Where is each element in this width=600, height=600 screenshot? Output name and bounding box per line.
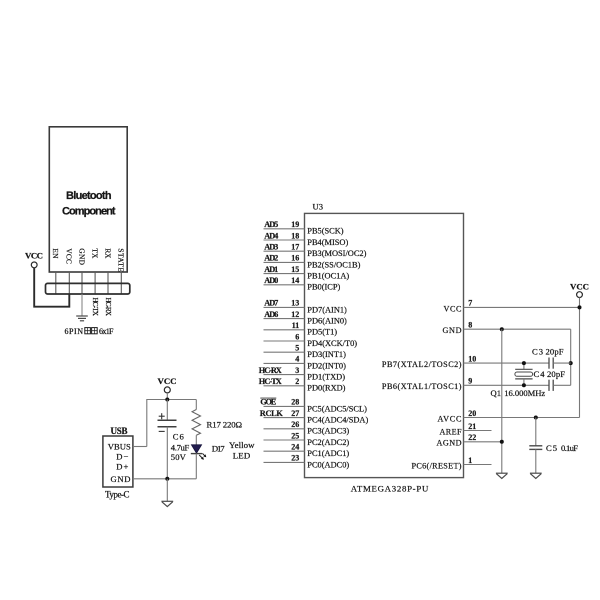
svg-text:C3: C3 (532, 346, 543, 356)
capacitor C3 20pF (532, 346, 571, 368)
wire: Bluetooth pin RX to header (107, 272, 109, 294)
junction: GND/C3 (569, 361, 573, 365)
svg-text:GND: GND (111, 474, 131, 484)
wire: VCC rail down to AVCC (579, 298, 581, 418)
wire: VCC rail top (VBUS branch / R17 branch) (133, 393, 196, 447)
svg-text:PB6(XTAL1/TOSC1): PB6(XTAL1/TOSC1) (382, 382, 462, 391)
svg-text:HC-TX: HC-TX (91, 298, 100, 317)
wire: Bluetooth pin VCC to header (68, 272, 70, 294)
svg-text:AD1: AD1 (264, 265, 278, 274)
svg-text:HC-RX: HC-RX (104, 298, 113, 317)
svg-text:D−: D− (116, 452, 128, 462)
Bluetooth module body (49, 127, 127, 272)
svg-text:EN: EN (51, 248, 60, 259)
svg-text:18: 18 (291, 231, 299, 240)
junction: VCC/C6 (165, 398, 169, 402)
Bluetooth pin label EN (51, 248, 60, 259)
svg-text:HC-TX: HC-TX (259, 377, 282, 386)
pin 18 PB4(MISO) (264, 231, 349, 247)
svg-text:PC0(ADC0): PC0(ADC0) (307, 460, 349, 469)
svg-text:6: 6 (295, 332, 299, 341)
label C6 4.7uF 50V (171, 432, 190, 462)
junction: XTAL2/crystal (522, 361, 526, 365)
junction: GND row / C6 (165, 477, 169, 481)
svg-text:VCC: VCC (570, 281, 589, 291)
svg-text:GND: GND (443, 326, 462, 335)
svg-text:28: 28 (291, 398, 299, 407)
pin 24 PC1(ADC1) (264, 443, 350, 459)
junction: AGND (500, 440, 504, 444)
pin 6 PD4(XCK/T0) (264, 332, 358, 348)
pin 26 PC3(ADC3) (264, 420, 350, 436)
svg-text:7: 7 (468, 299, 472, 308)
pin 10 PB7(XTAL2/TOSC2) (382, 354, 549, 369)
svg-text:23: 23 (291, 454, 299, 463)
junction: XTAL1/crystal (522, 383, 526, 387)
pin 14 PB0(ICP) (264, 276, 341, 292)
svg-text:3: 3 (295, 366, 299, 375)
wire: GND (pin8) to crystal caps (570, 329, 572, 385)
svg-text:Yellow: Yellow (229, 440, 255, 450)
svg-text:4: 4 (295, 355, 299, 364)
wire: Bluetooth pin STATE to header (120, 272, 122, 294)
svg-text:0.1uF: 0.1uF (561, 443, 578, 453)
svg-text:PC6(/RESET): PC6(/RESET) (412, 461, 462, 470)
Bluetooth pin label TX (91, 248, 100, 259)
svg-text:6x1F: 6x1F (99, 327, 114, 336)
svg-text:AD4: AD4 (264, 231, 278, 240)
net label HC-RX (header) (104, 298, 113, 317)
pin 2 PD0(RXD) (259, 377, 346, 393)
label R17 220 (207, 419, 243, 429)
Bluetooth pin label RX (103, 248, 112, 259)
resistor R17 220 ohm (192, 400, 200, 446)
svg-text:14: 14 (291, 276, 299, 285)
svg-text:PD2(INT0): PD2(INT0) (307, 361, 346, 370)
svg-text:AD5: AD5 (264, 220, 278, 229)
svg-text:PD3(INT1): PD3(INT1) (307, 350, 346, 359)
svg-text:PD7(AIN1): PD7(AIN1) (307, 305, 347, 314)
wire: Bluetooth pin TX to header (94, 272, 96, 294)
pin 15 PB1(OC1A) (264, 265, 350, 281)
svg-text:AD0: AD0 (264, 276, 278, 285)
svg-text:VCC: VCC (65, 248, 74, 264)
svg-text:STATE: STATE (117, 248, 126, 272)
svg-text:PC3(ADC3): PC3(ADC3) (307, 427, 349, 436)
svg-text:2: 2 (295, 377, 299, 386)
pin 19 PB5(SCK) (264, 220, 344, 236)
pin 5 PD3(INT1) (264, 344, 347, 360)
VCC terminal (MCU) (570, 281, 589, 297)
pin 21 AREF (440, 422, 492, 437)
pin 17 PB3(MOSI/OC2) (264, 243, 367, 259)
LED D17 (yellow) (191, 445, 207, 479)
svg-text:AD3: AD3 (264, 243, 278, 252)
net label HC-TX (header) (91, 298, 100, 317)
wire: Bluetooth pin EN to header (55, 272, 57, 294)
svg-text:15: 15 (291, 265, 299, 274)
svg-text:PD0(RXD): PD0(RXD) (307, 384, 345, 393)
svg-text:VBUS: VBUS (108, 442, 131, 452)
pin 28 PC5(ADC5/SCL) (260, 398, 367, 414)
USB pin D- (116, 452, 128, 462)
svg-text:PB5(SCK): PB5(SCK) (307, 227, 344, 236)
svg-text:25: 25 (291, 431, 299, 440)
pin 23 PC0(ADC0) (264, 454, 350, 470)
USB pin VBUS (108, 442, 131, 452)
junction: AVCC/C5 branch (534, 416, 538, 420)
label Q1 16.000MHz (491, 388, 546, 398)
svg-text:AD6: AD6 (264, 310, 278, 319)
pin 20 AVCC (438, 409, 580, 424)
pin 4 PD2(INT0) (264, 355, 347, 371)
svg-text:C5: C5 (546, 443, 557, 453)
wire: header GND pin down (81, 294, 83, 316)
svg-text:VCC: VCC (158, 376, 177, 386)
svg-text:Component: Component (62, 206, 116, 218)
svg-text:21: 21 (468, 422, 476, 431)
svg-text:12: 12 (291, 310, 299, 319)
svg-text:RX: RX (103, 248, 112, 259)
svg-text:4.7uF: 4.7uF (171, 442, 190, 452)
svg-text:11: 11 (292, 321, 300, 330)
pin 27 PC4(ADC4/SDA) (260, 409, 369, 425)
svg-text:9: 9 (468, 377, 472, 386)
svg-text:D+: D+ (116, 461, 128, 471)
ground (earth) at Bluetooth GND (76, 316, 88, 321)
capacitor C5 0.1uF (529, 418, 578, 474)
svg-text:22: 22 (468, 433, 476, 442)
svg-text:26: 26 (291, 420, 299, 429)
pin 8 GND (443, 321, 571, 336)
svg-text:PD5(T1): PD5(T1) (307, 328, 337, 337)
svg-text:Type-C: Type-C (105, 489, 130, 499)
svg-text:D17: D17 (212, 443, 226, 453)
VCC terminal (power rail) (158, 376, 177, 393)
capacitor C6 (polarized 4.7uF 50V) (158, 400, 177, 479)
6-pin header J1 (6PIN socket 6x1F) (46, 283, 130, 294)
junction: GND/analog ground branch (500, 327, 504, 331)
svg-text:8: 8 (468, 321, 472, 330)
svg-text:Q1: Q1 (491, 388, 502, 398)
Bluetooth pin label STATE (117, 248, 126, 272)
wire: ground drop (501, 329, 503, 473)
svg-text:USB: USB (111, 426, 128, 436)
svg-text:6PIN: 6PIN (65, 327, 84, 336)
svg-text:PC4(ADC4/SDA): PC4(ADC4/SDA) (307, 416, 368, 425)
svg-text:GND: GND (77, 248, 86, 265)
svg-text:PB3(MOSI/OC2): PB3(MOSI/OC2) (307, 249, 366, 258)
svg-text:AREF: AREF (440, 427, 462, 436)
svg-text:1: 1 (468, 456, 472, 465)
svg-text:R17 220Ω: R17 220Ω (207, 419, 243, 429)
pin 22 AGND (437, 433, 503, 448)
crystal Q1 16.000MHz (515, 363, 533, 385)
label D17 Yellow LED (212, 440, 255, 460)
svg-text:PB1(OC1A): PB1(OC1A) (307, 272, 349, 281)
svg-text:AD7: AD7 (264, 299, 278, 308)
svg-text:PD1(TXD): PD1(TXD) (307, 373, 345, 382)
svg-text:5: 5 (295, 344, 299, 353)
svg-text:AGND: AGND (437, 439, 462, 448)
Bluetooth pin label VCC (65, 248, 74, 264)
USB pin D+ (116, 461, 128, 471)
wire: down to ground (166, 479, 168, 502)
wire: GND row (USB GND - C6 - LED) (133, 478, 196, 480)
op: MCU body U3 ATMEGA328P-PU (305, 202, 464, 494)
pin 16 PB2(SS/OC1B) (264, 254, 361, 270)
svg-text:PB2(SS/OC1B): PB2(SS/OC1B) (307, 260, 360, 269)
wire: VCC terminal to header VCC pin (34, 268, 69, 307)
svg-text:PC5(ADC5/SCL): PC5(ADC5/SCL) (307, 404, 367, 413)
svg-text:GOE: GOE (260, 398, 276, 407)
svg-text:C4: C4 (534, 369, 546, 379)
svg-text:ATMEGA328P-PU: ATMEGA328P-PU (351, 483, 429, 493)
svg-text:16: 16 (291, 254, 299, 263)
svg-text:LED: LED (233, 450, 251, 460)
pin 12 PD6(AIN0) (264, 310, 348, 326)
svg-text:PB0(ICP): PB0(ICP) (307, 283, 340, 292)
pin 7 VCC (444, 299, 580, 314)
wire: Bluetooth pin GND to header (81, 272, 83, 294)
svg-text:17: 17 (291, 243, 299, 252)
svg-text:AVCC: AVCC (438, 414, 463, 423)
svg-text:TX: TX (91, 248, 100, 259)
svg-text:27: 27 (291, 409, 299, 418)
pin 9 PB6(XTAL1/TOSC1) (382, 377, 549, 392)
ground (arrow) C5 (530, 473, 542, 478)
svg-text:50V: 50V (171, 452, 187, 462)
svg-text:VCC: VCC (25, 251, 43, 261)
svg-text:Bluetooth: Bluetooth (66, 190, 112, 202)
ground (arrow) below C6 (161, 501, 173, 506)
pin 25 PC2(ADC2) (264, 431, 350, 447)
svg-text:U3: U3 (313, 202, 324, 212)
ground (arrow) analog (496, 473, 508, 478)
VCC terminal (Bluetooth) (25, 251, 43, 268)
svg-text:C6: C6 (173, 432, 185, 442)
Bluetooth pin label GND (77, 248, 86, 265)
svg-text:PD6(AIN0): PD6(AIN0) (307, 317, 347, 326)
svg-text:HC-RX: HC-RX (259, 366, 282, 375)
junction: pin7/VCC rail (578, 305, 582, 309)
svg-text:20pF: 20pF (547, 369, 565, 379)
svg-text:VCC: VCC (444, 304, 463, 313)
svg-text:16.000MHz: 16.000MHz (504, 388, 545, 398)
svg-text:PB7(XTAL2/TOSC2): PB7(XTAL2/TOSC2) (382, 360, 462, 369)
pin 3 PD1(TXD) (259, 366, 345, 382)
USB pin GND (111, 474, 131, 484)
svg-text:PD4(XCK/T0): PD4(XCK/T0) (307, 339, 357, 348)
svg-text:PB4(MISO): PB4(MISO) (307, 238, 348, 247)
svg-text:13: 13 (291, 299, 299, 308)
pin 1 PC6(/RESET) (412, 456, 492, 471)
svg-text:20pF: 20pF (546, 346, 564, 356)
svg-text:24: 24 (291, 443, 299, 452)
label 6PIN socket 6x1F (65, 327, 115, 336)
pin 11 PD5(T1) (264, 321, 338, 337)
svg-text:RCLK: RCLK (260, 409, 284, 418)
capacitor C4 20pF (534, 369, 571, 391)
svg-text:20: 20 (468, 409, 476, 418)
svg-text:19: 19 (291, 220, 299, 229)
svg-text:AD2: AD2 (264, 254, 278, 263)
USB Type-C connector body (103, 426, 133, 499)
svg-text:PC2(ADC2): PC2(ADC2) (307, 438, 349, 447)
pin 13 PD7(AIN1) (264, 299, 348, 315)
svg-text:PC1(ADC1): PC1(ADC1) (307, 449, 349, 458)
svg-text:10: 10 (468, 354, 476, 363)
